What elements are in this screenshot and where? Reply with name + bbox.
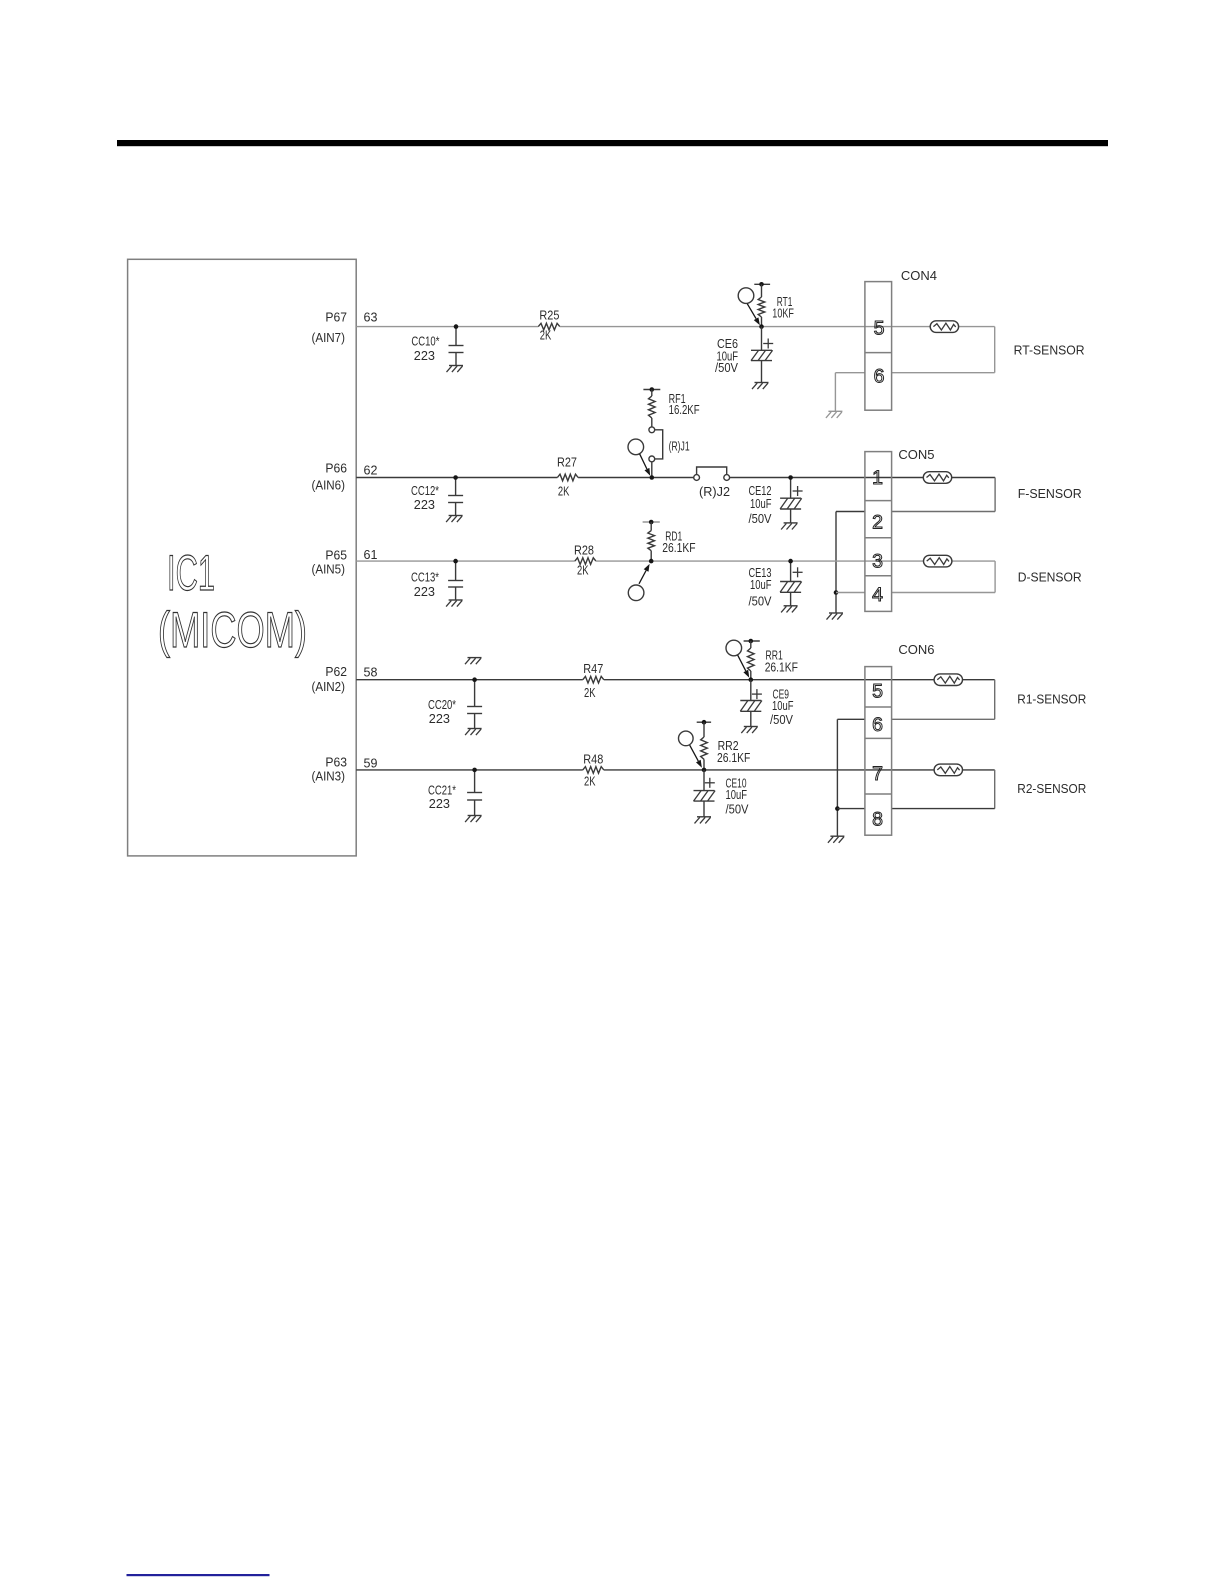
svg-text:CC12*: CC12* bbox=[411, 484, 439, 498]
svg-text:2K: 2K bbox=[584, 686, 596, 700]
svg-text:26.1KF: 26.1KF bbox=[765, 661, 799, 675]
svg-text:P63: P63 bbox=[325, 756, 347, 770]
svg-text:16.2KF: 16.2KF bbox=[669, 403, 700, 417]
svg-text:R48: R48 bbox=[583, 753, 603, 767]
svg-text:(AIN2): (AIN2) bbox=[312, 680, 346, 694]
svg-text:(AIN7): (AIN7) bbox=[312, 331, 346, 345]
svg-text:10uF: 10uF bbox=[772, 699, 794, 713]
svg-text:P66: P66 bbox=[325, 462, 347, 476]
svg-text:/50V: /50V bbox=[770, 713, 794, 727]
svg-text:5: 5 bbox=[874, 318, 885, 340]
svg-text:/50V: /50V bbox=[726, 803, 750, 817]
svg-text:P65: P65 bbox=[325, 548, 347, 562]
svg-text:62: 62 bbox=[364, 464, 378, 478]
svg-text:R2-SENSOR: R2-SENSOR bbox=[1017, 782, 1086, 796]
svg-text:R1-SENSOR: R1-SENSOR bbox=[1017, 692, 1086, 706]
svg-text:2K: 2K bbox=[577, 563, 589, 577]
svg-text:223: 223 bbox=[429, 797, 450, 811]
svg-text:R47: R47 bbox=[583, 662, 603, 676]
svg-text:223: 223 bbox=[414, 498, 435, 512]
svg-text:6: 6 bbox=[874, 366, 885, 388]
svg-text:R25: R25 bbox=[539, 308, 559, 322]
svg-text:/50V: /50V bbox=[749, 512, 773, 526]
svg-text:3: 3 bbox=[872, 551, 883, 573]
svg-text:IC1: IC1 bbox=[167, 545, 215, 601]
svg-text:7: 7 bbox=[872, 763, 883, 785]
svg-text:10uF: 10uF bbox=[750, 497, 772, 511]
svg-text:223: 223 bbox=[414, 585, 435, 599]
svg-text:/50V: /50V bbox=[749, 594, 773, 608]
svg-text:(R)J1: (R)J1 bbox=[669, 440, 690, 454]
svg-text:P67: P67 bbox=[325, 310, 347, 324]
svg-text:26.1KF: 26.1KF bbox=[717, 751, 751, 765]
svg-text:D-SENSOR: D-SENSOR bbox=[1018, 571, 1082, 585]
svg-text:CON4: CON4 bbox=[901, 268, 937, 283]
svg-text:26.1KF: 26.1KF bbox=[662, 541, 696, 555]
svg-text:F-SENSOR: F-SENSOR bbox=[1018, 487, 1082, 501]
svg-text:8: 8 bbox=[872, 809, 883, 831]
svg-text:CON5: CON5 bbox=[898, 447, 934, 462]
svg-text:(MICOM): (MICOM) bbox=[158, 602, 307, 658]
svg-text:1: 1 bbox=[872, 467, 883, 489]
svg-text:2K: 2K bbox=[540, 329, 552, 343]
svg-text:CON6: CON6 bbox=[898, 642, 934, 657]
svg-text:63: 63 bbox=[364, 310, 378, 324]
svg-text:(AIN5): (AIN5) bbox=[312, 563, 346, 577]
svg-text:58: 58 bbox=[364, 665, 378, 679]
svg-text:(R)J2: (R)J2 bbox=[699, 485, 730, 499]
svg-text:CC20*: CC20* bbox=[428, 698, 456, 712]
svg-text:61: 61 bbox=[364, 548, 378, 562]
svg-text:10uF: 10uF bbox=[750, 578, 772, 592]
svg-text:R27: R27 bbox=[557, 456, 577, 470]
svg-text:2: 2 bbox=[872, 512, 883, 534]
svg-text:R28: R28 bbox=[574, 543, 594, 557]
svg-text:RT-SENSOR: RT-SENSOR bbox=[1014, 344, 1085, 358]
svg-text:2K: 2K bbox=[584, 774, 596, 788]
svg-text:CC13*: CC13* bbox=[411, 571, 439, 585]
svg-text:CC21*: CC21* bbox=[428, 784, 456, 798]
svg-text:10uF: 10uF bbox=[726, 788, 748, 802]
svg-text:CC10*: CC10* bbox=[411, 335, 439, 349]
svg-text:(AIN3): (AIN3) bbox=[312, 769, 346, 783]
svg-text:10KF: 10KF bbox=[772, 307, 794, 321]
svg-text:CE12: CE12 bbox=[749, 484, 772, 498]
svg-text:2K: 2K bbox=[558, 484, 570, 498]
svg-text:223: 223 bbox=[429, 712, 450, 726]
svg-text:5: 5 bbox=[872, 680, 883, 702]
svg-text:59: 59 bbox=[364, 757, 378, 771]
svg-text:P62: P62 bbox=[325, 665, 347, 679]
svg-text:/50V: /50V bbox=[715, 361, 739, 375]
svg-text:(AIN6): (AIN6) bbox=[312, 479, 346, 493]
svg-text:4: 4 bbox=[872, 584, 883, 606]
svg-text:223: 223 bbox=[414, 349, 435, 363]
svg-text:6: 6 bbox=[872, 714, 883, 736]
